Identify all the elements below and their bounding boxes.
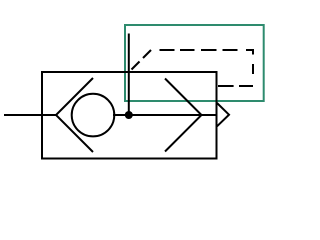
dashed adjustment line, diagonal dash 2 xyxy=(143,50,151,58)
dashed adjustment line, top dash 4 xyxy=(223,49,238,51)
dashed adjustment line, bottom dash 2 xyxy=(218,85,234,87)
flow arrow (throttle chevron) xyxy=(165,79,202,152)
dashed adjustment line, top-right corner dash xyxy=(246,50,253,55)
dashed adjustment line, right dash xyxy=(252,64,254,74)
selection box (teal) xyxy=(125,25,264,101)
outlet arrow xyxy=(217,103,229,126)
valve body outline xyxy=(42,72,217,159)
dashed adjustment line, top dash 3 xyxy=(201,49,217,51)
wire: vertical pilot line xyxy=(128,34,130,116)
wire: left port line xyxy=(4,114,56,116)
dashed adjustment line, top dash 1 xyxy=(160,49,175,51)
junction dot xyxy=(125,111,133,119)
dashed adjustment line, top dash 2 xyxy=(180,49,195,51)
wire: internal flow line xyxy=(113,114,217,116)
check valve seat xyxy=(56,78,93,152)
dashed adjustment line, bottom dash 1 xyxy=(239,85,253,87)
check valve ball xyxy=(72,94,115,137)
dashed adjustment line, diagonal dash 1 xyxy=(132,62,140,70)
